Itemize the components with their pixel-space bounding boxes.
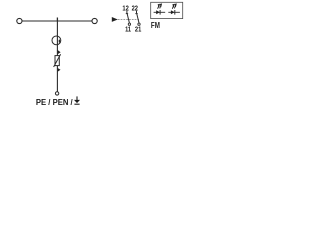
disconnect monitor circle — [52, 36, 61, 45]
svg-text:22: 22 — [132, 3, 138, 12]
terminal L (left, open circle) — [17, 18, 22, 23]
indicator box — [151, 2, 183, 18]
wire through monitor circle — [56, 36, 58, 50]
svg-text:12: 12 — [122, 3, 128, 12]
svg-text:21: 21 — [135, 24, 142, 33]
upper breakdown triangle — [58, 50, 61, 54]
contact 1 pivot circle — [128, 23, 130, 25]
contact 2 top stub — [136, 11, 138, 14]
contact 2 blade — [137, 14, 139, 23]
svg-text:FM: FM — [151, 21, 160, 30]
varistor body (rect) — [55, 56, 59, 66]
LED 2 — [168, 4, 180, 15]
LED2 emission arrows — [172, 4, 176, 9]
varistor diagonal — [54, 54, 61, 67]
FM actuator arrow — [112, 17, 118, 22]
node junction stub above wire — [56, 18, 58, 22]
contact 2 blade tick — [135, 13, 137, 15]
LED1 diode triangle — [156, 10, 160, 14]
svg-text:11: 11 — [125, 24, 132, 33]
LED1 emission arrows — [158, 4, 162, 9]
mechanical linkage (dashed) — [118, 19, 139, 21]
wire between triangle and varistor — [56, 50, 58, 56]
LED1 lead — [154, 11, 166, 13]
earth terminal circle — [55, 92, 58, 95]
LED1 cathode bar — [159, 10, 161, 15]
svg-text:PE / PEN /: PE / PEN / — [36, 97, 73, 107]
lower breakdown triangle — [58, 68, 61, 72]
contact 2 pivot circle — [138, 23, 140, 25]
indicator mark inside monitor circle — [59, 40, 61, 43]
LED 1 — [154, 4, 166, 15]
contact 1 top stub — [126, 11, 128, 14]
contact 1 blade tick — [126, 13, 128, 15]
earth symbol glyph — [74, 96, 80, 104]
wire below varistor — [56, 66, 58, 92]
wire: vertical drop from junction to monitor circle — [56, 21, 58, 36]
terminal N (right, open circle) — [92, 18, 97, 23]
wire: main horizontal conductor — [22, 20, 91, 22]
LED2 diode triangle — [171, 10, 175, 14]
LED2 lead — [168, 11, 180, 13]
LED2 cathode bar — [174, 10, 176, 15]
contact 1 blade — [127, 14, 129, 23]
